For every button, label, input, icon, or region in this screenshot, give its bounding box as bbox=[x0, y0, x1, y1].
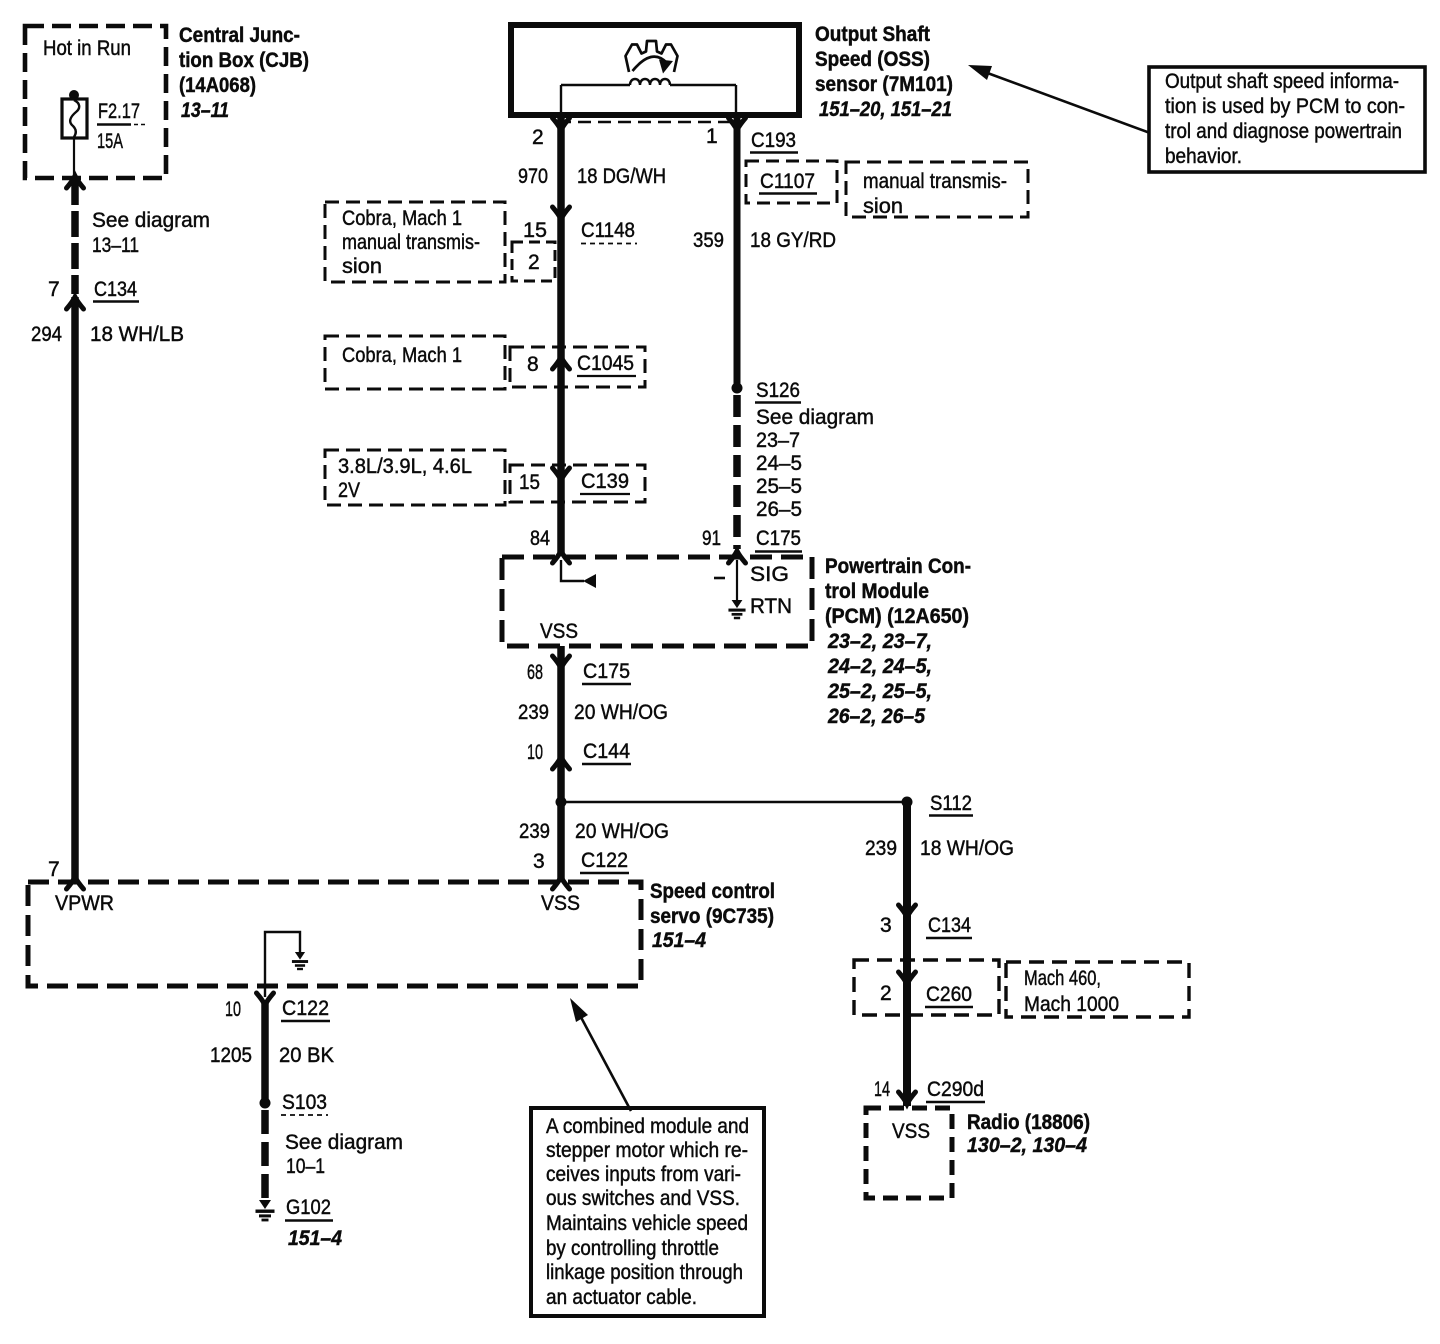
svg-text:VSS: VSS bbox=[892, 1120, 930, 1143]
svg-text:18 DG/WH: 18 DG/WH bbox=[577, 165, 666, 188]
connector C175 pin 68 bbox=[527, 660, 631, 684]
svg-text:Central Junc-: Central Junc- bbox=[179, 24, 300, 47]
svg-text:20 WH/OG: 20 WH/OG bbox=[575, 820, 669, 843]
svg-text:VSS: VSS bbox=[540, 620, 578, 643]
svg-text:26–2, 26–5: 26–2, 26–5 bbox=[827, 705, 925, 728]
callout arrow to OSS sensor bbox=[968, 65, 1150, 133]
svg-text:sensor (7M101): sensor (7M101) bbox=[815, 73, 953, 96]
label Hot in Run bbox=[43, 37, 131, 60]
label Output Shaft Speed (OSS) sensor (7M101) 151-20, 151-21 bbox=[815, 23, 953, 121]
svg-text:Output Shaft: Output Shaft bbox=[815, 23, 930, 46]
svg-text:C122: C122 bbox=[581, 849, 628, 872]
svg-text:15: 15 bbox=[519, 471, 540, 494]
pin label VSS servo bbox=[541, 892, 580, 915]
svg-text:Hot in Run: Hot in Run bbox=[43, 37, 131, 60]
svg-text:Radio (18806): Radio (18806) bbox=[967, 1111, 1090, 1134]
arrow up into servo VPWR bbox=[67, 877, 84, 889]
callout arrow to servo bbox=[570, 998, 631, 1111]
svg-text:by controlling throttle: by controlling throttle bbox=[546, 1237, 719, 1260]
svg-text:2V: 2V bbox=[338, 479, 360, 502]
pin label SIG RTN bbox=[750, 563, 792, 618]
svg-text:C139: C139 bbox=[581, 470, 629, 493]
note box manual transmission bbox=[846, 162, 1028, 218]
svg-text:1205: 1205 bbox=[210, 1044, 252, 1067]
gear symbol inside OSS sensor bbox=[626, 41, 678, 74]
arrow up into servo VSS bbox=[553, 877, 570, 889]
svg-text:18 WH/OG: 18 WH/OG bbox=[920, 837, 1014, 860]
wire down to servo VSS bbox=[557, 802, 565, 879]
ground G102 bbox=[256, 1196, 343, 1250]
svg-text:trol Module: trol Module bbox=[825, 580, 929, 603]
arrow down at C1148 bbox=[553, 207, 570, 219]
connector C122 pin 3 bbox=[533, 849, 629, 873]
svg-text:25–2, 25–5,: 25–2, 25–5, bbox=[827, 680, 932, 703]
svg-text:servo (9C735): servo (9C735) bbox=[650, 905, 774, 928]
pin 7 servo VPWR bbox=[48, 858, 60, 881]
svg-text:manual transmis-: manual transmis- bbox=[342, 231, 480, 254]
svg-text:Mach 1000: Mach 1000 bbox=[1024, 993, 1119, 1016]
svg-text:26–5: 26–5 bbox=[756, 498, 802, 521]
svg-text:tion is used by PCM to con-: tion is used by PCM to con- bbox=[1165, 95, 1405, 118]
connector C134 pin 3 bbox=[880, 914, 972, 938]
svg-text:18 WH/LB: 18 WH/LB bbox=[90, 323, 184, 346]
svg-text:23–7: 23–7 bbox=[756, 429, 800, 452]
wire pin 1 down from OSS bbox=[734, 115, 741, 388]
wire pin 2 down from OSS bbox=[557, 115, 565, 555]
svg-text:151–4: 151–4 bbox=[288, 1227, 342, 1250]
svg-text:A combined module and: A combined module and bbox=[546, 1115, 749, 1138]
Output Shaft Speed sensor box bbox=[511, 25, 799, 115]
wire PCM VSS output down bbox=[557, 646, 565, 802]
svg-text:7: 7 bbox=[48, 858, 60, 881]
connector C1148 pin 15 bbox=[523, 219, 637, 244]
svg-text:24–2, 24–5,: 24–2, 24–5, bbox=[827, 655, 932, 678]
connector C1045 pin 8 dashed box bbox=[510, 347, 645, 387]
svg-text:Maintains vehicle speed: Maintains vehicle speed bbox=[546, 1212, 748, 1235]
callout note OSS information bbox=[1149, 67, 1425, 172]
svg-text:3: 3 bbox=[533, 850, 545, 873]
svg-text:20 BK: 20 BK bbox=[279, 1044, 334, 1067]
label Powertrain Control Module (PCM) (12A650) bbox=[825, 555, 971, 728]
svg-text:10–1: 10–1 bbox=[286, 1155, 325, 1178]
arrow down at C290d bbox=[899, 1092, 916, 1104]
arrow down at C260 bbox=[899, 972, 916, 984]
arrow up at CJB exit bbox=[67, 176, 84, 188]
label Radio (18806) 130-2, 130-4 bbox=[967, 1111, 1090, 1157]
svg-text:3: 3 bbox=[880, 914, 892, 937]
splice S126 bbox=[732, 379, 802, 403]
pin label VSS inside PCM bbox=[540, 620, 578, 643]
wire S112 down to radio bbox=[903, 802, 911, 1106]
svg-text:C175: C175 bbox=[756, 527, 801, 550]
svg-text:24–5: 24–5 bbox=[756, 452, 802, 475]
label See diagram 23-7 24-5 25-5 26-5 bbox=[756, 406, 874, 521]
internal VSS input wire with arrowhead bbox=[561, 560, 596, 588]
svg-text:See diagram: See diagram bbox=[285, 1131, 403, 1154]
svg-text:Cobra, Mach 1: Cobra, Mach 1 bbox=[342, 207, 462, 230]
svg-text:(PCM) (12A650): (PCM) (12A650) bbox=[825, 605, 969, 628]
coil symbol inside OSS sensor bbox=[561, 79, 736, 112]
connector C144 pin 10 bbox=[527, 740, 631, 764]
svg-text:359: 359 bbox=[693, 229, 724, 252]
svg-text:C1045: C1045 bbox=[577, 352, 634, 375]
svg-text:VPWR: VPWR bbox=[55, 892, 114, 915]
svg-text:15A: 15A bbox=[97, 130, 123, 153]
wire dashed S103 to G102 bbox=[261, 1110, 269, 1200]
svg-text:2: 2 bbox=[880, 982, 892, 1005]
svg-text:130–2, 130–4: 130–2, 130–4 bbox=[967, 1134, 1087, 1157]
svg-text:23–2, 23–7,: 23–2, 23–7, bbox=[827, 630, 932, 653]
arrow down at C175 pin 68 bbox=[553, 656, 570, 668]
wire dashed CJB to C134 bbox=[71, 179, 79, 294]
svg-text:manual transmis-: manual transmis- bbox=[863, 170, 1007, 193]
arrow up at C1045 bbox=[553, 357, 570, 369]
connector C260 pin 2 dashed box bbox=[854, 960, 999, 1015]
svg-text:Cobra, Mach 1: Cobra, Mach 1 bbox=[342, 344, 462, 367]
splice S103 bbox=[260, 1091, 329, 1115]
pin label VPWR bbox=[55, 892, 114, 915]
svg-text:239: 239 bbox=[519, 820, 550, 843]
value label F2.17 / 15A bbox=[97, 100, 146, 153]
small dashed box pin 2 bbox=[512, 242, 555, 281]
svg-text:20 WH/OG: 20 WH/OG bbox=[574, 701, 668, 724]
wire 1205 20 BK bbox=[261, 1000, 269, 1103]
svg-text:SIG: SIG bbox=[750, 563, 789, 586]
label See diagram 13-11 bbox=[92, 209, 210, 257]
svg-text:239: 239 bbox=[518, 701, 549, 724]
svg-text:2: 2 bbox=[528, 251, 540, 274]
svg-text:13–11: 13–11 bbox=[181, 99, 229, 122]
svg-text:ous switches and VSS.: ous switches and VSS. bbox=[546, 1187, 740, 1210]
callout note combined module bbox=[531, 1108, 764, 1316]
arrow up at C144 bbox=[553, 757, 570, 769]
label 1205 20 BK bbox=[210, 1044, 334, 1067]
svg-text:Mach 460,: Mach 460, bbox=[1024, 967, 1101, 990]
label Central Junction Box (CJB) (14A068) 13-11 bbox=[179, 24, 309, 122]
svg-text:C122: C122 bbox=[282, 997, 329, 1020]
svg-text:14: 14 bbox=[874, 1078, 890, 1101]
svg-text:18 GY/RD: 18 GY/RD bbox=[750, 229, 836, 252]
svg-text:ceives inputs from vari-: ceives inputs from vari- bbox=[546, 1163, 741, 1186]
connector C175 pin 91 bbox=[702, 527, 802, 552]
Radio dashed box bbox=[866, 1108, 952, 1198]
svg-text:7: 7 bbox=[48, 278, 60, 301]
arrow down at C193 pin 1 bbox=[729, 118, 746, 130]
label 970 18 DG/WH bbox=[518, 165, 666, 188]
arrow up at C134 bbox=[67, 297, 84, 309]
Powertrain Control Module dashed box bbox=[502, 557, 812, 646]
connector C193 dashed line bbox=[558, 121, 740, 124]
pin 1 label bbox=[706, 125, 718, 148]
connector C1107 dashed box bbox=[746, 161, 837, 203]
svg-text:sion: sion bbox=[863, 195, 903, 218]
connector C122 pin 10 bbox=[225, 997, 330, 1021]
svg-text:G102: G102 bbox=[286, 1196, 331, 1219]
svg-text:970: 970 bbox=[518, 165, 548, 188]
arrow up at C175 pin 91 bbox=[729, 551, 746, 563]
svg-text:1: 1 bbox=[706, 125, 718, 148]
arrow up at PCM pin 84 bbox=[553, 551, 570, 563]
svg-text:15: 15 bbox=[523, 219, 547, 242]
svg-text:10: 10 bbox=[225, 998, 241, 1021]
svg-text:13–11: 13–11 bbox=[92, 234, 139, 257]
svg-text:tion Box (CJB): tion Box (CJB) bbox=[179, 49, 309, 72]
svg-text:C290d: C290d bbox=[927, 1078, 984, 1101]
label 294 18 WH/LB bbox=[31, 323, 184, 346]
note box Cobra, Mach 1 manual transmission bbox=[325, 202, 505, 282]
wire 294 18 WH/LB vertical bbox=[71, 297, 79, 879]
connector C290d pin 14 bbox=[874, 1078, 985, 1102]
svg-text:S112: S112 bbox=[930, 792, 972, 815]
svg-text:Speed (OSS): Speed (OSS) bbox=[815, 48, 930, 71]
svg-text:linkage position through: linkage position through bbox=[546, 1261, 743, 1284]
svg-text:C175: C175 bbox=[583, 660, 630, 683]
connector C139 pin 15 dashed box bbox=[510, 465, 645, 502]
label C193 bbox=[750, 129, 798, 153]
note box 3.8L/3.9L, 4.6L 2V bbox=[325, 450, 505, 505]
internal SIG RTN wire to ground bbox=[714, 560, 746, 619]
svg-text:See diagram: See diagram bbox=[92, 209, 210, 232]
arrow down at C122 pin 10 bbox=[257, 993, 274, 1005]
svg-text:151–4: 151–4 bbox=[652, 929, 706, 952]
svg-text:behavior.: behavior. bbox=[1165, 145, 1242, 168]
svg-text:10: 10 bbox=[527, 741, 543, 764]
label 359 18 GY/RD bbox=[693, 229, 836, 252]
svg-text:C1148: C1148 bbox=[581, 219, 635, 242]
svg-text:84: 84 bbox=[530, 527, 550, 550]
Central Junction Box (CJB) dashed enclosure bbox=[25, 26, 166, 178]
pin 84 label bbox=[530, 527, 550, 550]
label 239 20 WH/OG upper bbox=[518, 701, 668, 724]
note box Cobra, Mach 1 bbox=[325, 336, 505, 389]
note box Mach 460, Mach 1000 bbox=[1006, 962, 1189, 1017]
svg-text:VSS: VSS bbox=[541, 892, 580, 915]
svg-text:3.8L/3.9L, 4.6L: 3.8L/3.9L, 4.6L bbox=[338, 455, 472, 478]
svg-text:294: 294 bbox=[31, 323, 62, 346]
svg-text:2: 2 bbox=[532, 126, 544, 149]
svg-text:68: 68 bbox=[527, 661, 543, 684]
label 239 18 WH/OG bbox=[865, 837, 1014, 860]
svg-text:S126: S126 bbox=[756, 379, 800, 402]
wire dashed S126 to C175 bbox=[733, 395, 741, 549]
fuse F2.17 15A bbox=[62, 90, 87, 176]
svg-text:F2.17: F2.17 bbox=[98, 100, 140, 123]
svg-text:C144: C144 bbox=[583, 740, 630, 763]
svg-text:151–20, 151–21: 151–20, 151–21 bbox=[819, 98, 952, 121]
pin 2 label bbox=[532, 126, 544, 149]
svg-text:C260: C260 bbox=[926, 983, 972, 1006]
svg-text:C134: C134 bbox=[94, 278, 137, 301]
splice S112 bbox=[902, 792, 974, 816]
wire horizontal branch to S112 bbox=[561, 801, 907, 804]
connector C134 pin 7 bbox=[48, 278, 139, 302]
svg-text:Powertrain Con-: Powertrain Con- bbox=[825, 555, 971, 578]
svg-text:See diagram: See diagram bbox=[756, 406, 874, 429]
arrow down at C193 pin 2 bbox=[553, 118, 570, 130]
svg-text:an actuator cable.: an actuator cable. bbox=[546, 1286, 697, 1309]
svg-text:239: 239 bbox=[865, 837, 897, 860]
Speed control servo dashed box bbox=[28, 882, 641, 986]
internal servo ground wire bbox=[265, 932, 308, 997]
svg-text:S103: S103 bbox=[282, 1091, 327, 1114]
svg-text:Speed control: Speed control bbox=[650, 880, 775, 903]
svg-text:C193: C193 bbox=[751, 129, 796, 152]
svg-text:25–5: 25–5 bbox=[756, 475, 802, 498]
svg-text:C1107: C1107 bbox=[760, 170, 815, 193]
svg-text:trol and diagnose powertrain: trol and diagnose powertrain bbox=[1165, 120, 1402, 143]
label 239 20 WH/OG lower bbox=[519, 820, 669, 843]
svg-text:(14A068): (14A068) bbox=[179, 74, 256, 97]
arrow down at C139 bbox=[553, 468, 570, 480]
svg-text:stepper motor which re-: stepper motor which re- bbox=[546, 1139, 748, 1162]
label Speed control servo (9C735) 151-4 bbox=[650, 880, 775, 952]
svg-text:RTN: RTN bbox=[750, 595, 792, 618]
svg-text:sion: sion bbox=[342, 255, 382, 278]
junction node at 239 branch bbox=[556, 797, 567, 808]
arrow down at C134 right bbox=[899, 905, 916, 917]
svg-text:C134: C134 bbox=[928, 914, 971, 937]
svg-text:8: 8 bbox=[527, 353, 539, 376]
label See diagram 10-1 bbox=[285, 1131, 403, 1178]
svg-text:Output shaft speed informa-: Output shaft speed informa- bbox=[1165, 70, 1399, 93]
svg-text:91: 91 bbox=[702, 527, 721, 550]
